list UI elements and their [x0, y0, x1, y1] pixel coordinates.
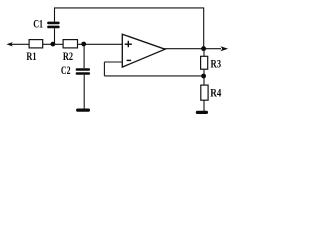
wire: inverting input — [104, 61, 122, 63]
wire: C1 bottom to node A — [54, 28, 56, 44]
ground (right) — [196, 111, 208, 114]
resistor R2 — [63, 40, 77, 48]
wire: node B down to C2 — [83, 44, 85, 68]
svg-text:R4: R4 — [210, 87, 221, 99]
op-amp U1 — [122, 34, 165, 67]
op-amp minus sign — [127, 59, 132, 61]
resistor R4 — [201, 85, 208, 100]
svg-text:R2: R2 — [63, 51, 73, 63]
capacitor C2 — [76, 68, 90, 75]
wire: R2 to op-amp non-inverting input through node B — [78, 43, 123, 45]
wire: R4 to ground — [203, 100, 205, 111]
input arrow (left) — [6, 42, 29, 46]
svg-text:C2: C2 — [61, 65, 71, 77]
ground (left) — [76, 109, 90, 112]
capacitor C1 — [47, 22, 59, 29]
resistor R3 — [201, 56, 208, 69]
svg-text:R1: R1 — [26, 51, 36, 63]
svg-text:R3: R3 — [211, 59, 222, 71]
node R3/R4 junction dot — [201, 74, 206, 79]
wire: output node down to R3 — [203, 49, 205, 57]
wire: R3 to R4 through node — [203, 69, 205, 85]
wire: feedback left vertical — [103, 62, 105, 76]
wire: R1 to R2 through node A — [43, 43, 63, 45]
wire: feedback top rail — [55, 8, 204, 49]
resistor R1 — [29, 40, 43, 48]
wire: feedback bottom rail to R3/R4 node — [104, 75, 204, 77]
wire: C2 to ground — [83, 75, 85, 109]
node A junction dot — [51, 42, 56, 47]
op-amp plus sign — [125, 41, 132, 47]
svg-text:C1: C1 — [33, 19, 43, 31]
wire: op-amp output — [164, 48, 221, 50]
node B junction dot — [81, 42, 86, 47]
output node junction dot — [201, 46, 206, 51]
output arrow (right) — [220, 46, 228, 51]
